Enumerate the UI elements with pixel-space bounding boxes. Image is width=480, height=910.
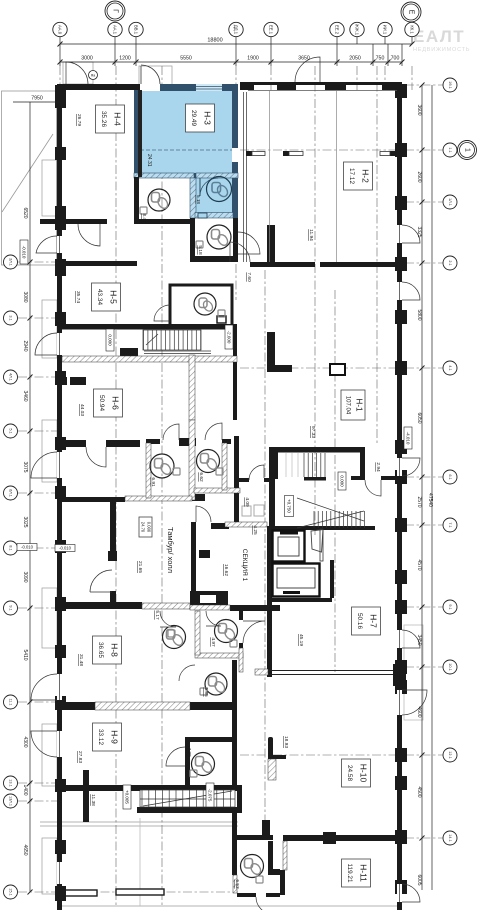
L-stub upper x267 y332 — [267, 332, 275, 372]
H-3 door arc top — [141, 65, 160, 84]
level 0.000 stairhall — [338, 472, 346, 490]
level -0.010 — [20, 240, 28, 264]
left facade window bays (light) — [42, 160, 57, 894]
svg-text:35.74: 35.74 — [75, 291, 81, 303]
svg-text:6Л.1: 6Л.1 — [9, 489, 13, 497]
svg-text:3.1: 3.1 — [9, 315, 13, 320]
left wall window gaps — [57, 236, 62, 253]
level -0.010 left column — [17, 544, 37, 551]
svg-text:3600: 3600 — [416, 104, 422, 115]
wall y261 left (axis 2.1) — [57, 261, 137, 266]
top dimension line row2 — [58, 44, 405, 66]
svg-text:Н-10: Н-10 — [358, 764, 368, 783]
svg-text:14.1: 14.1 — [448, 834, 452, 841]
H-3 bottom-left wall hatched — [134, 173, 194, 178]
bottom-left faint floor lines — [40, 822, 400, 906]
right dimension line — [420, 83, 433, 891]
duct parallelogram right of car1 — [311, 530, 323, 553]
pilaster on wall y835 — [323, 832, 336, 844]
svg-text:9.1: 9.1 — [448, 604, 452, 609]
svg-text:Н-7: Н-7 — [368, 614, 378, 628]
svg-text:16.62: 16.62 — [223, 564, 229, 576]
svg-text:5.17: 5.17 — [154, 610, 160, 620]
toilet wc y765 — [192, 753, 215, 776]
level -2.075 — [206, 783, 214, 807]
svg-text:4.97: 4.97 — [210, 637, 216, 647]
door arcs group — [31, 57, 427, 910]
landing bar y477 — [304, 477, 326, 481]
stair3 top wall y785 (H15) — [57, 785, 242, 791]
svg-text:2Л.1: 2Л.1 — [9, 258, 13, 266]
svg-text:47540: 47540 — [427, 493, 433, 507]
wall y219 below H-4 wc — [134, 219, 195, 224]
axis circle АА.0 — [53, 22, 67, 36]
wc-b right wall stubs x239 — [239, 611, 243, 620]
svg-text:3460: 3460 — [22, 390, 28, 401]
black fixture box hall — [199, 550, 210, 558]
svg-text:50.94: 50.94 — [98, 395, 105, 411]
svg-text:4300: 4300 — [22, 736, 28, 747]
wall stub y381 blocks — [57, 377, 67, 385]
axis circle ЕЕ.1 — [264, 22, 278, 36]
L-stub x268 y737 — [268, 737, 273, 757]
svg-text:ЕЕ.1: ЕЕ.1 — [269, 25, 274, 35]
H-3 right wall window gap — [232, 148, 238, 162]
svg-text:18.93: 18.93 — [283, 736, 289, 748]
black piece x190 y494 — [190, 494, 205, 501]
svg-text:0.000: 0.000 — [146, 522, 151, 533]
thin mullion lines H-2 — [270, 91, 337, 262]
axis circle ВВ.1 — [129, 22, 143, 36]
axis circle 7.1 (right) — [443, 518, 457, 532]
svg-text:-2.600: -2.600 — [226, 331, 231, 344]
svg-text:1900: 1900 — [247, 56, 259, 62]
room label H-6 — [94, 389, 123, 417]
svg-text:Н-4: Н-4 — [112, 112, 122, 126]
svg-text:3080: 3080 — [22, 291, 28, 302]
wc3 right wall x232 y710-790 — [232, 710, 237, 790]
hatched wall y488 tambour bottom right — [194, 488, 240, 493]
axis circle 3.1 (left) — [4, 311, 18, 325]
svg-text:11.1: 11.1 — [9, 698, 13, 705]
svg-text:4570: 4570 — [416, 559, 422, 570]
svg-text:8.47: 8.47 — [141, 213, 147, 223]
svg-text:4600: 4600 — [416, 706, 422, 717]
dim 7950 top-left — [13, 101, 60, 103]
wall y835 right (H17) — [283, 835, 402, 841]
svg-text:24.58: 24.58 — [346, 765, 353, 781]
hall partition wall x110 — [110, 501, 116, 551]
svg-text:6.62: 6.62 — [198, 472, 204, 482]
thin partition x244 y92-262 — [244, 92, 247, 262]
svg-text:Н-9: Н-9 — [109, 730, 119, 744]
svg-text:26.79: 26.79 — [76, 114, 82, 126]
svg-text:7.60: 7.60 — [246, 272, 252, 282]
axis circle ЖЖ.1 — [350, 22, 364, 36]
room label H-10 — [342, 759, 371, 787]
svg-text:3000: 3000 — [81, 56, 93, 62]
svg-text:0.000: 0.000 — [107, 334, 112, 346]
hatched piece y669 x255 — [255, 669, 268, 675]
parapet lines y670 — [268, 671, 397, 675]
room label H-4 — [96, 105, 125, 133]
window sills top wall right section — [240, 85, 396, 90]
svg-text:17.12: 17.12 — [348, 168, 355, 184]
bottom wc room walls — [237, 835, 273, 840]
svg-text:36.65: 36.65 — [97, 642, 104, 658]
svg-text:24.70: 24.70 — [140, 522, 145, 533]
svg-text:6050: 6050 — [416, 412, 422, 423]
svg-text:13.1: 13.1 — [9, 779, 13, 786]
level -0.010 hall — [55, 545, 75, 552]
H-3 wc bottom wall hatched — [195, 213, 233, 219]
hatched vertical x268 y759 — [268, 759, 276, 780]
room label H-3 — [186, 104, 215, 132]
toilet wc2 (below blue) — [207, 225, 231, 249]
toilet H-4 wc — [148, 189, 170, 211]
svg-text:4.09: 4.09 — [244, 497, 250, 507]
H-4 room walls — [138, 90, 142, 177]
hatched wall y653 below mid wcs — [195, 653, 243, 658]
svg-text:АА.1: АА.1 — [113, 25, 118, 35]
svg-text:-4.010: -4.010 — [405, 432, 410, 445]
svg-text:4.1: 4.1 — [448, 365, 452, 370]
svg-text:1400: 1400 — [22, 784, 28, 795]
right outer wall — [397, 84, 402, 910]
svg-text:7950: 7950 — [31, 96, 43, 102]
small axis circle at top-left door — [89, 71, 98, 80]
balcony dashed overhang above top wall — [63, 62, 172, 90]
axis circle 15.1 (left) — [4, 885, 18, 899]
hatched vertical x146 wc-a left — [146, 443, 151, 498]
wall x234 y218-262 — [233, 218, 238, 262]
axis circle 1.1 (right) — [443, 143, 457, 157]
axis circle 10.1 (right) — [443, 660, 457, 674]
left dimension line — [28, 102, 33, 895]
axis circle 2Л.1 (left) — [4, 255, 18, 269]
left outer wall — [57, 84, 62, 910]
top-left outer wall — [57, 84, 140, 90]
watermark logo text top-right — [413, 27, 470, 53]
svg-text:4650: 4650 — [22, 844, 28, 855]
room label tambour — [139, 517, 152, 537]
corridor wall y219 left — [40, 219, 107, 224]
svg-text:3075: 3075 — [22, 461, 28, 472]
hatched wall y496 tambour bottom left — [125, 496, 192, 501]
axis circle 5.1 (left) — [4, 424, 18, 438]
svg-text:35.26: 35.26 — [100, 111, 107, 127]
horizontal axis dash-dot lines — [240, 367, 444, 369]
main wall y324 (H5) — [57, 324, 237, 330]
H-3 walls (dark blue outline) — [134, 84, 238, 218]
hatched vertical x195 y611-655 — [195, 611, 200, 655]
svg-text:1200: 1200 — [119, 56, 131, 62]
wall y602 solid left part (H10) — [57, 602, 142, 609]
axis circle 11.1 (left) — [4, 695, 18, 709]
svg-text:Н-2: Н-2 — [360, 169, 370, 183]
svg-text:ЕАЛТ: ЕАЛТ — [413, 27, 465, 46]
svg-text:-0.010: -0.010 — [59, 546, 72, 551]
axis circle 9.1 (left) — [4, 601, 18, 615]
room label H-7 — [352, 607, 381, 635]
stub x262 y820 — [262, 820, 270, 835]
svg-text:Г: Г — [112, 9, 119, 13]
corridor wall x234 y436-522 — [234, 436, 239, 522]
duct shaft above wall y606 — [190, 591, 228, 605]
pilaster right end y664 — [393, 664, 406, 686]
svg-text:2570: 2570 — [416, 496, 422, 507]
axis circle 2.1 (right) — [443, 256, 457, 270]
svg-text:50.16: 50.16 — [356, 613, 363, 629]
wc row top wall y439 — [146, 439, 160, 444]
toilet bottom wc — [241, 855, 264, 878]
wc2 bottom wall y256 — [195, 256, 238, 262]
svg-text:44.03: 44.03 — [79, 404, 85, 416]
H-5 wc room (x170 y283) — [170, 285, 232, 324]
stair hall inner stub x274 — [274, 452, 278, 479]
room H-3 blue fill — [134, 86, 238, 218]
svg-text:1б.1: 1б.1 — [448, 81, 452, 88]
sink in H-3 wc — [198, 213, 207, 218]
room label H-9 — [93, 723, 122, 751]
svg-text:750: 750 — [376, 56, 385, 62]
H-3 inner wall hatched (wc top) — [196, 173, 238, 178]
top wall right section thin (windows) — [240, 82, 402, 85]
axis circle 1б.1 (right) — [443, 78, 457, 92]
svg-text:Н-11: Н-11 — [358, 864, 368, 882]
svg-text:Н-3: Н-3 — [202, 111, 212, 125]
hatched vertical x233 y875 — [233, 875, 237, 893]
elevator shaft walls — [267, 526, 375, 530]
svg-text:12.1: 12.1 — [448, 751, 452, 758]
svg-text:9.1: 9.1 — [9, 605, 13, 610]
axis circle 14.1 (right) — [443, 831, 457, 845]
svg-text:+0.750: +0.750 — [286, 499, 291, 513]
H-3 dashed zone line 24.31 — [140, 149, 232, 151]
svg-text:7.1: 7.1 — [448, 522, 452, 527]
level -2.600 — [225, 325, 233, 349]
axis circle Г (big top) — [105, 1, 125, 21]
svg-text:5550: 5550 — [180, 56, 192, 62]
svg-text:2050: 2050 — [349, 56, 361, 62]
axis circle ЕЕ.2 — [330, 22, 344, 36]
level 4060 right — [404, 427, 412, 449]
svg-text:2600: 2600 — [416, 171, 422, 182]
wall y605 right black piece — [230, 605, 280, 611]
svg-text:4.25: 4.25 — [252, 525, 258, 535]
svg-text:29.49: 29.49 — [190, 110, 197, 126]
right wall door gaps — [397, 225, 402, 243]
electrical panels in corridor — [242, 505, 264, 516]
toilet mid wc B — [215, 620, 238, 643]
svg-text:-2.075: -2.075 — [207, 789, 212, 802]
toilet wc y681 — [205, 673, 227, 695]
wall y523 right of door — [211, 523, 229, 529]
svg-text:107.04: 107.04 — [345, 396, 351, 415]
svg-text:6.1: 6.1 — [448, 474, 452, 479]
svg-text:3025: 3025 — [22, 516, 28, 527]
svg-text:Н-5: Н-5 — [108, 290, 118, 304]
top dimension line 18800 — [58, 42, 415, 47]
axis circle 4.1 (right) — [443, 361, 457, 375]
toilet tambour wc B — [197, 450, 220, 473]
room label H-11 — [342, 859, 371, 887]
axis circle 8.1 (left) — [4, 541, 18, 555]
left wall pilasters — [55, 85, 66, 901]
wall y497 left — [57, 497, 125, 502]
stair 2 upper flight treads — [286, 453, 325, 477]
svg-text:Н-1: Н-1 — [355, 399, 364, 412]
svg-text:ВВ.1: ВВ.1 — [134, 25, 139, 35]
thin wall right of car1 — [320, 529, 323, 561]
svg-text:Е: Е — [408, 10, 415, 15]
wall y440 (H7) — [57, 440, 86, 447]
svg-text:6.53: 6.53 — [234, 879, 240, 889]
wall x134 vertical (H-4 right / wc) — [134, 177, 139, 224]
toilet mid wc A — [163, 626, 186, 649]
axis circle 6Л.1 (left) — [4, 486, 18, 500]
svg-text:0.000: 0.000 — [339, 475, 344, 487]
svg-text:Тамбур/ холл: Тамбур/ холл — [166, 527, 175, 573]
duct box above wall y324 — [217, 316, 226, 323]
axis circle 1Л.1 (right) — [443, 195, 457, 209]
svg-text:4Л.1: 4Л.1 — [9, 373, 13, 381]
corridor door wall y478 — [239, 478, 249, 482]
svg-text:700: 700 — [391, 56, 400, 62]
hatched wall y522 x225-267 — [225, 522, 267, 527]
svg-text:ЕЕ.2: ЕЕ.2 — [335, 25, 340, 35]
stair hall top wall y447 — [269, 447, 365, 453]
svg-text:10.1: 10.1 — [448, 663, 452, 670]
svg-text:11.94: 11.94 — [308, 229, 314, 241]
toilet H-5 wc — [194, 293, 216, 315]
stair 2 lower flight — [297, 498, 364, 528]
svg-text:24.31: 24.31 — [146, 154, 152, 167]
svg-text:КК.1: КК.1 — [410, 25, 415, 34]
vert wall x83 y770-822 — [83, 770, 89, 822]
svg-text:3650: 3650 — [298, 56, 310, 62]
svg-text:1: 1 — [464, 148, 471, 152]
svg-text:6.91: 6.91 — [150, 477, 156, 487]
room label H-1 — [341, 390, 365, 420]
svg-text:Н-6: Н-6 — [110, 396, 120, 410]
axis circle 12.1 (right) — [443, 748, 457, 762]
svg-text:3090: 3090 — [22, 571, 28, 582]
svg-text:4500: 4500 — [416, 786, 422, 797]
svg-text:ЖЖ.1: ЖЖ.1 — [355, 24, 360, 36]
axis circle 9.1 (right) — [443, 600, 457, 614]
room label H-5 — [92, 283, 121, 311]
stair 1 treads (y330-350) — [143, 330, 211, 354]
wall x267 y605-677 — [267, 605, 272, 677]
wall y262 right (H4 axis 2.1) — [250, 262, 315, 267]
axis circle АА.1 — [108, 22, 122, 36]
hatched wall y702 (H13) — [95, 702, 190, 710]
stair hall wall y476 — [351, 476, 365, 480]
svg-text:Яa: Яa — [91, 74, 96, 78]
terrace outline top-left with diagonals — [2, 91, 57, 265]
svg-text:45.19: 45.19 — [298, 634, 304, 646]
column C1 — [330, 364, 345, 375]
svg-text:3450: 3450 — [416, 634, 422, 645]
svg-text:15.1: 15.1 — [9, 888, 13, 895]
axis circle 4Л.1 (left) — [4, 370, 18, 384]
bottom stub bars y890 (open leaves) — [57, 890, 97, 896]
axis circle КК.1 — [405, 22, 419, 36]
svg-text:ДД.1: ДД.1 — [234, 25, 239, 35]
hall wall x191 y522-602 — [191, 522, 196, 602]
hatched wall y603 mid (H10) — [142, 603, 190, 609]
svg-text:27.83: 27.83 — [77, 751, 83, 763]
H-3 top wall door gap — [140, 84, 160, 91]
wc y660-702 right wall x232 — [232, 660, 237, 710]
svg-text:2940: 2940 — [22, 340, 28, 351]
svg-text:3325: 3325 — [416, 226, 422, 237]
hatched vertical x190 y355-500 — [189, 355, 195, 420]
hatched vertical x283 y841 (bottom wc) — [283, 841, 287, 870]
svg-text:ИИ.1: ИИ.1 — [383, 25, 388, 35]
wc3 left wall x185 — [185, 737, 190, 785]
vert wall x232 y810-875 — [232, 810, 237, 875]
stair hall inner wall x357 — [360, 452, 365, 478]
axis circle ДД.1 — [229, 22, 243, 36]
svg-text:-0.010: -0.010 — [21, 246, 26, 259]
stair3 right wall x237 y785-813 — [237, 785, 242, 813]
svg-text:Н-8: Н-8 — [109, 643, 119, 657]
wc3 top wall y737 — [185, 737, 237, 742]
hatched vertical x222 wc-b right — [222, 443, 227, 490]
inner face line of top window wall — [248, 90, 397, 92]
svg-text:5.18: 5.18 — [196, 195, 201, 204]
svg-text:11.38: 11.38 — [90, 794, 96, 806]
svg-text:18800: 18800 — [207, 38, 222, 44]
svg-text:5.85: 5.85 — [203, 687, 209, 697]
svg-text:6005: 6005 — [416, 874, 422, 885]
svg-text:-0.010: -0.010 — [21, 545, 34, 550]
right wall pilasters — [395, 84, 407, 894]
stair hall left wall x270 y447-605 — [269, 447, 275, 530]
svg-text:НЕДВИЖИМОСТЬ: НЕДВИЖИМОСТЬ — [413, 47, 470, 53]
svg-text:СЕКЦИЯ 1: СЕКЦИЯ 1 — [241, 549, 248, 582]
svg-text:13Л.1: 13Л.1 — [9, 796, 13, 806]
faint landing rect right wall — [404, 625, 423, 720]
wall y702 black ends — [57, 702, 95, 710]
room label H-8 — [93, 636, 122, 664]
axis circle Е (big top right) — [401, 2, 421, 22]
stub x267 y225-267 — [267, 225, 275, 267]
vertical axis dash-dot lines — [115, 66, 117, 905]
svg-text:8.1: 8.1 — [9, 545, 13, 550]
svg-text:1.1: 1.1 — [448, 147, 452, 152]
svg-text:31.48: 31.48 — [78, 654, 84, 666]
stair3 bottom wall y807 (H16) — [137, 807, 237, 813]
H-3 top wall window gap — [196, 84, 222, 91]
svg-text:21.65: 21.65 — [137, 561, 143, 573]
thin wall x233 y328-420 — [233, 328, 237, 420]
axis circle ИИ.1 — [378, 22, 392, 36]
svg-text:5410: 5410 — [22, 649, 28, 660]
axis circle 1 (big right) — [458, 141, 477, 160]
svg-text:119.21: 119.21 — [346, 863, 353, 883]
level 0.000 stair1 — [106, 329, 114, 351]
sinks (small fixtures) — [140, 207, 263, 883]
svg-text:АА.0: АА.0 — [58, 25, 63, 35]
svg-text:2.1: 2.1 — [448, 260, 452, 265]
axis circle 6.1 (right) — [443, 470, 457, 484]
level +0.005 — [123, 785, 131, 809]
partition bars y151 in H-2 — [246, 151, 397, 156]
room label H-2 — [344, 162, 373, 190]
